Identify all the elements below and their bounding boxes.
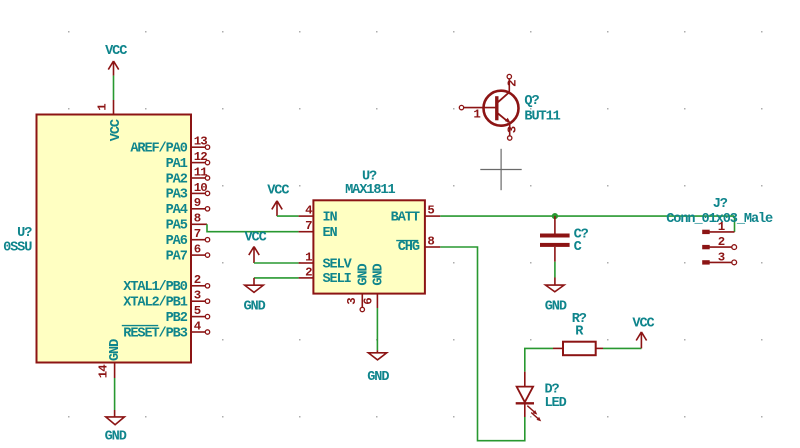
svg-text:7: 7 <box>305 219 312 233</box>
wire resistor to VCC <box>603 347 641 349</box>
svg-text:IN: IN <box>323 210 338 225</box>
MAX1811 pin 3 GND <box>345 263 371 311</box>
svg-text:PA6: PA6 <box>166 234 188 249</box>
svg-text:8: 8 <box>427 234 434 248</box>
svg-text:RESET/PB3: RESET/PB3 <box>123 326 187 341</box>
svg-text:PA7: PA7 <box>166 249 188 264</box>
svg-text:5: 5 <box>427 204 434 218</box>
U? pin 5 PB2 <box>166 304 210 326</box>
U? pin 4 RESET/PB3 <box>122 319 210 341</box>
svg-text:3: 3 <box>718 251 725 265</box>
svg-text:CHG: CHG <box>398 240 420 255</box>
svg-text:MAX1811: MAX1811 <box>345 183 395 198</box>
wire VCC to U? pin 1 <box>113 76 115 100</box>
svg-text:1: 1 <box>718 220 725 234</box>
power symbol VCC above U? <box>105 44 127 76</box>
MAX1811 pin 4 IN <box>299 204 338 226</box>
svg-text:GND: GND <box>105 430 127 445</box>
svg-text:2: 2 <box>305 265 312 279</box>
svg-text:PA3: PA3 <box>166 188 188 203</box>
LED D? <box>516 372 542 422</box>
svg-text:PB2: PB2 <box>166 311 188 326</box>
svg-text:BATT: BATT <box>391 210 420 225</box>
power symbol VCC at resistor <box>632 316 654 348</box>
svg-text:3: 3 <box>506 126 520 133</box>
wire MAX1811 CHG to LED cathode <box>440 247 525 441</box>
svg-text:12: 12 <box>194 150 207 164</box>
U? pin 10 PA3 <box>166 181 210 203</box>
svg-text:PA5: PA5 <box>166 219 188 234</box>
connector J? pin 2 <box>702 235 736 249</box>
resistor R? <box>553 342 603 356</box>
svg-text:7: 7 <box>194 227 201 241</box>
svg-text:Q?: Q? <box>524 94 539 109</box>
wire MAX1811 BATT to connector J? <box>440 215 734 217</box>
U? pin 7 PA6 <box>166 227 210 249</box>
cursor crosshair <box>480 149 521 190</box>
svg-text:XTAL2/PB1: XTAL2/PB1 <box>123 296 187 311</box>
U? pin 6 PA7 <box>166 243 210 265</box>
svg-text:1: 1 <box>473 107 480 121</box>
svg-text:1: 1 <box>305 250 312 264</box>
svg-text:VCC: VCC <box>632 316 654 331</box>
svg-text:6: 6 <box>362 298 376 305</box>
wire down to J? pin 1 <box>734 216 736 232</box>
wire VCC to MAX1811 SELV <box>254 262 299 264</box>
svg-text:VCC: VCC <box>267 184 289 199</box>
svg-text:EN: EN <box>323 226 338 241</box>
U? pin 1 VCC (top) <box>96 100 124 141</box>
svg-text:13: 13 <box>194 135 207 149</box>
svg-text:PA1: PA1 <box>166 157 188 172</box>
power symbol VCC at MAX1811 IN <box>267 184 289 217</box>
MAX1811 pin 2 SELI <box>299 265 352 287</box>
svg-text:AREF/PA0: AREF/PA0 <box>130 142 187 157</box>
svg-text:11: 11 <box>194 165 207 179</box>
wire capacitor to GND <box>554 262 556 278</box>
wire VCC to MAX1811 IN <box>277 215 299 217</box>
U? pin 3 XTAL2/PB1 <box>123 289 209 311</box>
connector J? pin 1 <box>702 220 734 234</box>
IC U? MAX1811 body <box>313 200 425 293</box>
capacitor C? <box>540 216 570 262</box>
wire U? PA5 to MAX1811 EN <box>207 224 299 231</box>
svg-text:2: 2 <box>505 80 519 87</box>
wire LED anode to resistor <box>525 348 553 371</box>
svg-text:2: 2 <box>194 273 201 287</box>
svg-text:3: 3 <box>194 289 201 303</box>
connector J? pin 3 <box>702 251 736 265</box>
svg-text:LED: LED <box>545 396 567 411</box>
svg-text:C: C <box>574 240 582 255</box>
svg-text:10: 10 <box>194 181 207 195</box>
wire U? pin 14 to GND <box>114 378 116 410</box>
svg-text:14: 14 <box>97 364 111 378</box>
wire GND to MAX1811 SELI <box>254 277 299 279</box>
svg-text:J?: J? <box>713 197 728 212</box>
svg-text:2: 2 <box>718 235 725 249</box>
U? pin 11 PA2 <box>166 165 210 187</box>
U? pin 14 GND (bottom) <box>97 339 123 378</box>
svg-text:GND: GND <box>367 370 389 385</box>
svg-text:XTAL1/PB0: XTAL1/PB0 <box>123 280 187 295</box>
ground symbol below U? <box>105 410 127 445</box>
MAX1811 pin 1 SELV <box>299 250 353 272</box>
svg-text:PA4: PA4 <box>166 203 188 218</box>
svg-text:1: 1 <box>96 104 110 111</box>
ground symbol at MAX1811 SELI <box>244 278 266 315</box>
U? pin 13 AREF/PA0 <box>130 135 209 157</box>
svg-text:GND: GND <box>356 263 371 285</box>
svg-text:BUT11: BUT11 <box>524 109 560 124</box>
svg-text:VCC: VCC <box>245 230 267 245</box>
svg-text:3: 3 <box>345 298 359 305</box>
svg-text:0SSU: 0SSU <box>3 240 32 255</box>
U? pin 2 XTAL1/PB0 <box>123 273 209 295</box>
wire MAX1811 pin 6 to GND <box>376 308 378 350</box>
svg-text:VCC: VCC <box>109 119 124 141</box>
MAX1811 pin 5 BATT <box>391 204 441 226</box>
ground symbol below capacitor <box>545 278 567 315</box>
power symbol VCC at MAX1811 SELV <box>245 230 267 263</box>
svg-text:SELV: SELV <box>323 257 353 272</box>
MAX1811 pin 8 CHG <box>396 234 440 255</box>
ground symbol below MAX1811 <box>367 350 389 385</box>
U? pin 9 PA4 <box>166 196 210 218</box>
IC U? body <box>37 115 192 363</box>
junction on BATT net <box>552 213 558 219</box>
svg-text:8: 8 <box>194 212 201 226</box>
svg-text:GND: GND <box>371 263 386 285</box>
svg-text:6: 6 <box>194 243 201 257</box>
svg-text:VCC: VCC <box>105 44 127 59</box>
transistor Q1 BUT11 <box>459 74 519 140</box>
MAX1811 pin 6 GND <box>362 263 387 308</box>
svg-text:U?: U? <box>17 226 32 241</box>
U? pin 8 PA5 (connected) <box>166 212 207 234</box>
svg-text:9: 9 <box>194 196 201 210</box>
svg-text:GND: GND <box>244 299 266 314</box>
svg-text:5: 5 <box>194 304 201 318</box>
svg-text:SELI: SELI <box>323 272 352 287</box>
MAX1811 pin 7 EN <box>299 219 338 241</box>
svg-text:PA2: PA2 <box>166 172 188 187</box>
U? pin 12 PA1 <box>166 150 210 172</box>
svg-text:GND: GND <box>545 299 567 314</box>
svg-text:GND: GND <box>108 339 123 361</box>
